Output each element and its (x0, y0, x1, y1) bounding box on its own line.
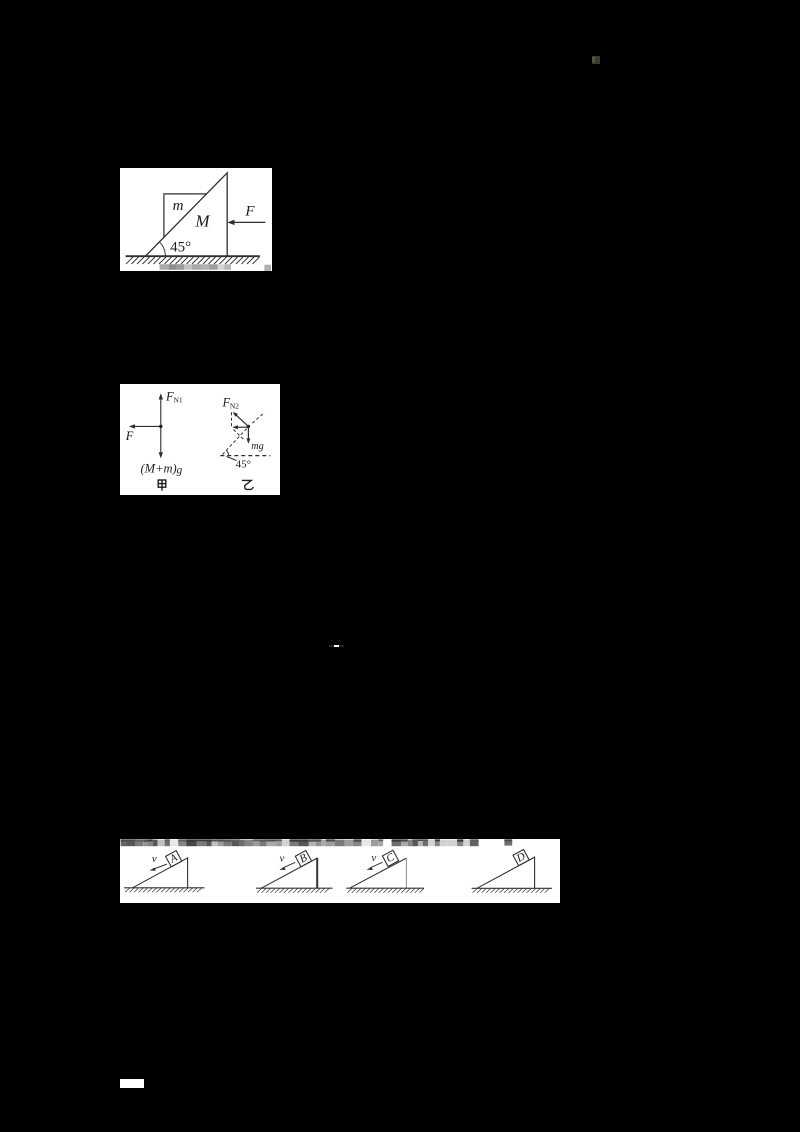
block m (square behind incline: top + left edges) (164, 194, 206, 237)
force F_N2 arrow up-left (235, 414, 248, 426)
velocity arrow B (283, 863, 295, 869)
block B (295, 851, 311, 867)
icon: olive blob inside marker (592, 57, 595, 62)
svg-text:(M+m): (M+m) (141, 461, 177, 475)
thick right side B (316, 858, 318, 888)
figure 1: wedge M with block m pushed by force F (120, 168, 272, 271)
fraction-bar highlight fragment mid page (329, 645, 334, 648)
svg-text:F: F (244, 203, 255, 219)
force F arrow (233, 221, 265, 223)
figure 2: free-body diagrams jia and yi (120, 384, 280, 495)
caption fragment (cropped gray text tops) (160, 264, 231, 270)
cropped gray text band (121, 840, 513, 847)
svg-text:M: M (194, 212, 210, 231)
svg-text:g: g (177, 465, 183, 477)
incline D (477, 857, 535, 888)
incline B (261, 858, 317, 888)
force mg arrow down (247, 426, 249, 440)
dashed vertical helper from F_N2 tip (231, 412, 233, 427)
svg-text:N2: N2 (230, 402, 239, 411)
ground D (472, 888, 552, 890)
diagram jia: force F_N1 up arrow (160, 397, 162, 455)
icon: small gray square marker top right (592, 56, 600, 65)
white highlight rectangle bottom left (120, 1079, 144, 1088)
block D (513, 850, 529, 866)
ground hatching D (473, 889, 549, 893)
ground C (346, 888, 424, 890)
svg-text:45°: 45° (236, 459, 251, 471)
ground hatching C (347, 889, 424, 893)
velocity arrow C (370, 863, 382, 869)
dashed incline line up-right (252, 412, 264, 423)
dashed horizontal base line (220, 455, 270, 457)
label jia (Chinese) (158, 480, 166, 491)
node dot jia (159, 425, 162, 428)
leader line to 45deg label (227, 457, 237, 461)
ground A (124, 887, 204, 889)
ground hatching (126, 257, 260, 264)
dashed helper from component tip down-right (234, 430, 245, 441)
svg-text:N1: N1 (174, 396, 183, 405)
ground B (256, 888, 333, 890)
label yi (Chinese) (242, 480, 253, 489)
block A (166, 851, 182, 867)
ground hatching B (257, 889, 329, 893)
ground line (126, 255, 260, 257)
wedge M (triangle, hypotenuse + right vertical side) (145, 173, 227, 256)
figure 3: four inclines A B C D (120, 839, 560, 903)
svg-text:v: v (152, 854, 157, 866)
force (M+m)g down arrow (159, 452, 163, 458)
svg-text:F: F (125, 429, 134, 443)
svg-text:v: v (280, 853, 285, 865)
incline A (133, 858, 188, 888)
block C (382, 851, 398, 867)
incline C (350, 858, 407, 888)
svg-text:45°: 45° (170, 240, 191, 256)
svg-text:mg: mg (251, 441, 263, 452)
horizontal component arrow left (236, 426, 248, 428)
45 degree arc at base vertex (226, 451, 228, 456)
ground hatching A (125, 888, 202, 892)
dashed incline line down-left (222, 429, 247, 456)
gray corner block (264, 265, 271, 271)
diagram yi: node dot (247, 425, 250, 428)
velocity arrow A (154, 864, 167, 869)
separate block (504, 840, 512, 846)
svg-text:v: v (371, 852, 376, 864)
45 degree arc (159, 242, 165, 256)
svg-text:m: m (173, 198, 184, 214)
force F left arrow (133, 425, 161, 427)
